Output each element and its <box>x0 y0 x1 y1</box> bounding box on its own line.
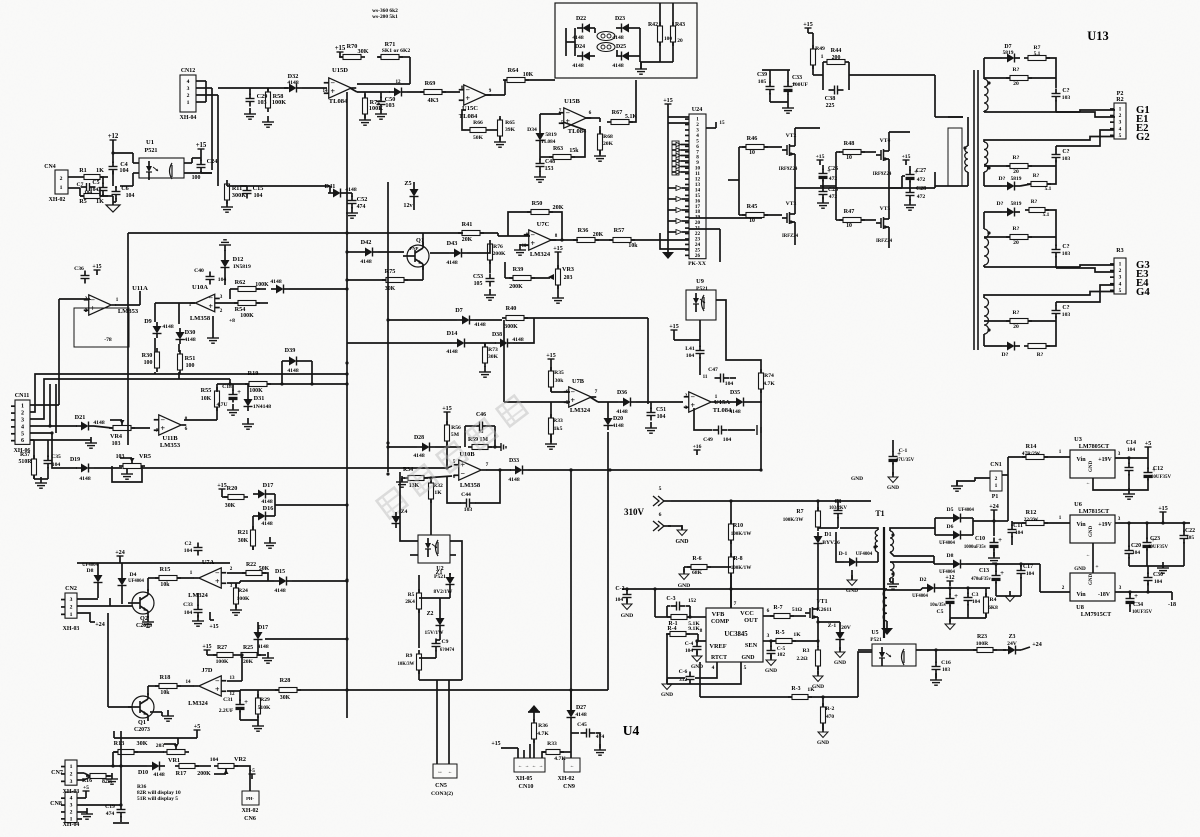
potentiometer VR3 <box>548 265 574 289</box>
diode D9 <box>144 318 174 338</box>
svg-text:Vin: Vin <box>1076 592 1086 598</box>
svg-text:CN5: CN5 <box>435 783 447 789</box>
svg-text:R30: R30 <box>142 352 153 359</box>
svg-text:+24: +24 <box>115 550 125 556</box>
resistor R5 <box>79 188 108 205</box>
diode D21 <box>75 414 105 431</box>
svg-text:P1: P1 <box>992 494 999 500</box>
secondary winding T1a <box>890 528 935 556</box>
svg-text:1k5: 1k5 <box>554 426 563 432</box>
note text <box>137 784 181 802</box>
wire <box>142 466 449 469</box>
wire <box>504 320 570 402</box>
svg-text:474: 474 <box>357 204 366 210</box>
svg-text:6: 6 <box>453 474 456 480</box>
capacitor C18 <box>216 384 241 408</box>
svg-text:1: 1 <box>1059 515 1062 521</box>
svg-text:D9: D9 <box>144 318 152 325</box>
resistor R7c <box>1025 199 1056 240</box>
svg-text:104: 104 <box>685 648 693 654</box>
resistor R45 <box>742 203 782 224</box>
svg-text:LM358: LM358 <box>460 482 481 489</box>
svg-text:+19V: +19V <box>1098 522 1112 528</box>
svg-text:200K: 200K <box>509 284 523 290</box>
svg-text:D17: D17 <box>258 625 268 631</box>
ground <box>691 651 703 670</box>
svg-text:4148: 4148 <box>729 409 740 415</box>
svg-text:7: 7 <box>734 601 737 607</box>
power +15 <box>803 22 813 33</box>
svg-text:GND: GND <box>851 476 863 482</box>
svg-text:472: 472 <box>917 194 926 200</box>
wire <box>498 233 530 236</box>
wire <box>984 285 1114 306</box>
svg-text:+12: +12 <box>108 133 119 140</box>
op-amp U15D <box>322 67 356 105</box>
svg-text:UC3845: UC3845 <box>724 631 748 638</box>
svg-text:+24: +24 <box>1032 642 1042 648</box>
svg-text:R12: R12 <box>1026 509 1037 516</box>
svg-text:C19: C19 <box>105 804 115 810</box>
capacitor C48 <box>536 145 556 172</box>
svg-text:C30: C30 <box>1153 572 1163 578</box>
wire <box>550 239 578 241</box>
op-amp U7C <box>522 221 558 258</box>
capacitor C41 <box>674 320 705 359</box>
resistor R75 <box>347 266 423 292</box>
wire <box>377 396 528 519</box>
resistor R1 <box>79 167 104 180</box>
svg-text:R54: R54 <box>235 306 246 313</box>
resistor R27 <box>207 645 237 665</box>
svg-text:C53: C53 <box>473 274 483 280</box>
wire <box>112 466 142 482</box>
capacitor C4 <box>109 145 129 175</box>
svg-text:LM324: LM324 <box>570 407 591 414</box>
svg-text:VREF: VREF <box>709 643 726 650</box>
svg-text:470: 470 <box>826 714 834 720</box>
ground <box>988 552 1000 563</box>
svg-text:R?: R? <box>1031 199 1038 205</box>
transistor Q1b <box>128 693 154 733</box>
svg-text:R49: R49 <box>815 46 825 52</box>
svg-text:LM358: LM358 <box>190 315 211 322</box>
svg-text:IN5819: IN5819 <box>233 264 251 270</box>
wire <box>1086 543 1099 573</box>
resistor R7a <box>1024 45 1056 88</box>
svg-text:+: + <box>465 94 470 103</box>
svg-text:5.1: 5.1 <box>1043 212 1050 218</box>
svg-text:10: 10 <box>749 218 755 224</box>
ground <box>834 647 846 666</box>
svg-text:20K: 20K <box>552 204 563 211</box>
svg-text:203: 203 <box>156 743 165 749</box>
ground <box>1123 488 1135 499</box>
svg-text:XH-02: XH-02 <box>49 197 66 203</box>
svg-text:D15: D15 <box>275 569 285 575</box>
svg-text:←: ← <box>1086 552 1091 557</box>
diode D30 <box>176 328 196 344</box>
svg-text:GND: GND <box>678 583 691 589</box>
svg-text:8: 8 <box>700 628 703 634</box>
svg-text:+16: +16 <box>693 444 702 450</box>
svg-text:+: + <box>1134 593 1138 600</box>
diode D33 <box>486 458 761 483</box>
svg-text:R68: R68 <box>603 134 613 140</box>
svg-text:4: 4 <box>187 79 190 85</box>
svg-text:47R/2W: 47R/2W <box>1022 451 1041 457</box>
svg-text:1: 1 <box>995 483 998 489</box>
svg-text:+: + <box>998 537 1002 544</box>
wire bus H233 <box>128 232 463 234</box>
svg-text:R67: R67 <box>612 109 623 116</box>
svg-text:R-2: R-2 <box>826 706 835 712</box>
capacitor C30 <box>1144 566 1164 592</box>
svg-text:R-7: R-7 <box>773 605 782 611</box>
svg-text:20V: 20V <box>841 625 852 631</box>
op-amp U15B <box>559 98 592 135</box>
label ws <box>372 8 398 20</box>
wire <box>302 87 327 89</box>
svg-text:1: 1 <box>821 54 824 60</box>
ground <box>142 616 154 627</box>
ground <box>552 285 564 303</box>
svg-text:R46: R46 <box>747 135 758 142</box>
svg-text:10k: 10k <box>160 582 170 588</box>
svg-text:1N4148: 1N4148 <box>253 404 271 410</box>
svg-text:2.2UF: 2.2UF <box>219 708 234 714</box>
svg-text:510R: 510R <box>18 459 32 465</box>
svg-text:R35: R35 <box>554 370 564 376</box>
svg-text:3: 3 <box>230 583 233 589</box>
svg-text:10: 10 <box>846 155 852 161</box>
svg-text:U11B: U11B <box>162 435 178 442</box>
svg-text:R50: R50 <box>532 200 543 207</box>
svg-text:15V/1W: 15V/1W <box>425 630 445 636</box>
resistor R46 <box>742 135 782 156</box>
svg-text:K2611: K2611 <box>816 607 832 613</box>
svg-text:68K: 68K <box>692 570 703 576</box>
svg-text:100: 100 <box>144 360 153 366</box>
svg-text:GND: GND <box>817 740 829 746</box>
resistor R36b <box>532 719 550 758</box>
resistor R21 <box>238 526 256 550</box>
svg-text:3: 3 <box>1118 451 1121 457</box>
mosfet VT4 <box>873 138 892 177</box>
resistor R57 <box>560 227 689 249</box>
svg-text:2: 2 <box>187 93 190 99</box>
zener Z5 <box>403 180 418 210</box>
svg-text:1K: 1K <box>96 167 104 174</box>
svg-text:+5: +5 <box>1145 441 1152 447</box>
svg-text:5.1: 5.1 <box>1034 51 1041 57</box>
svg-text:R19: R19 <box>248 370 259 377</box>
resistor R66 <box>462 110 497 141</box>
mosfet VT3 <box>782 201 799 239</box>
svg-text:1: 1 <box>21 404 24 410</box>
svg-text:U8: U8 <box>1076 604 1084 611</box>
wire <box>265 637 349 640</box>
svg-text:10K/3W: 10K/3W <box>398 662 415 667</box>
resistor R22 <box>242 562 270 581</box>
svg-text:4148: 4148 <box>274 588 285 594</box>
wire <box>984 100 1115 117</box>
ground <box>85 437 97 448</box>
resistor R7big <box>783 499 821 531</box>
svg-text:C27: C27 <box>916 168 926 174</box>
svg-text:8: 8 <box>555 233 558 239</box>
svg-text:104: 104 <box>52 462 61 468</box>
resistor R44 <box>823 47 849 65</box>
svg-text:R33: R33 <box>553 418 563 424</box>
resistor R5b <box>405 575 421 648</box>
svg-text:GND: GND <box>846 588 858 594</box>
capacitor C6 <box>112 185 135 202</box>
svg-text:R75: R75 <box>385 268 396 275</box>
wire <box>184 158 212 173</box>
svg-text:4148: 4148 <box>287 368 298 374</box>
ic U6 LM7815CT <box>1070 501 1115 543</box>
ground <box>262 116 274 127</box>
wire <box>253 505 347 530</box>
svg-text:10UF35V: 10UF35V <box>1151 475 1172 480</box>
svg-text:104: 104 <box>1127 447 1135 453</box>
svg-text:+: + <box>570 396 575 405</box>
label G3E3E4G4 <box>1136 259 1150 298</box>
svg-text:2K4: 2K4 <box>405 599 415 605</box>
capacitor C-4 <box>685 639 702 654</box>
svg-text:R9: R9 <box>406 653 413 659</box>
resistor R25 <box>237 645 266 665</box>
svg-text:1: 1 <box>187 100 190 106</box>
wire <box>111 731 197 768</box>
svg-text:104: 104 <box>615 597 623 603</box>
svg-text:7: 7 <box>559 108 562 114</box>
svg-text:←: ← <box>570 763 575 768</box>
svg-text:15k: 15k <box>569 148 579 154</box>
resistor R13 <box>113 740 164 755</box>
diode D19 <box>70 457 94 482</box>
svg-text:U7B: U7B <box>572 378 585 385</box>
svg-text:103: 103 <box>1062 312 1071 318</box>
svg-text:↔: ↔ <box>437 769 443 775</box>
svg-text:C33: C33 <box>183 602 193 608</box>
capacitor C7b <box>1052 149 1071 163</box>
svg-text:C-4: C-4 <box>685 641 694 647</box>
ground <box>227 404 239 415</box>
resistor R30 <box>142 348 160 372</box>
svg-text:D7: D7 <box>455 307 463 314</box>
svg-text:VR3: VR3 <box>562 266 574 273</box>
ground <box>951 478 990 491</box>
svg-text:6: 6 <box>659 512 662 518</box>
svg-text:6K8: 6K8 <box>988 605 998 611</box>
ground <box>594 150 606 161</box>
capacitor C27 <box>906 168 927 183</box>
svg-text:1K: 1K <box>96 198 104 205</box>
resistor R7d <box>1024 321 1056 358</box>
wire <box>731 576 737 608</box>
svg-text:+15: +15 <box>196 142 207 149</box>
svg-text:3: 3 <box>21 417 24 423</box>
svg-text:100UF: 100UF <box>792 82 809 88</box>
svg-text:4148: 4148 <box>446 260 457 266</box>
capacitor C51 <box>647 402 667 421</box>
resistor R23 <box>973 634 1006 653</box>
svg-text:+: + <box>237 389 241 396</box>
svg-text:C24: C24 <box>207 158 218 165</box>
ground <box>661 678 673 698</box>
power arrow <box>528 705 540 721</box>
wire <box>400 472 462 575</box>
svg-text:Q1: Q1 <box>138 719 146 726</box>
diode D43 <box>430 240 490 266</box>
svg-text:20: 20 <box>1013 169 1019 175</box>
svg-text:+5: +5 <box>249 768 255 774</box>
svg-text:C40: C40 <box>194 268 204 274</box>
wire bus V2 <box>386 182 389 476</box>
capacitor C17 <box>1017 562 1035 596</box>
svg-text:D22: D22 <box>576 16 586 22</box>
svg-text:D19: D19 <box>70 457 80 463</box>
svg-text:OUT: OUT <box>744 617 758 624</box>
ground <box>817 727 829 746</box>
svg-text:R76: R76 <box>493 244 503 250</box>
svg-text:D30: D30 <box>185 329 196 336</box>
wire <box>689 218 762 262</box>
svg-text:R7: R7 <box>796 509 803 515</box>
svg-text:103: 103 <box>112 441 121 447</box>
svg-text:100K: 100K <box>255 282 269 288</box>
svg-text:R70: R70 <box>347 43 358 50</box>
diode D34 <box>527 127 557 145</box>
svg-text:14: 14 <box>322 88 328 94</box>
svg-text:R20: R20 <box>227 485 238 492</box>
ground <box>207 332 219 343</box>
svg-text:104: 104 <box>723 437 732 443</box>
svg-text:D?: D? <box>997 201 1004 207</box>
svg-text:R39: R39 <box>513 266 524 273</box>
svg-text:CN8: CN8 <box>50 801 62 807</box>
svg-text:C20: C20 <box>1131 543 1141 549</box>
svg-text:GND: GND <box>675 539 688 545</box>
power +24 <box>115 550 125 561</box>
capacitor C5 <box>930 588 958 618</box>
ground <box>346 207 358 218</box>
svg-text:←: ← <box>532 763 537 768</box>
svg-text:C28: C28 <box>916 186 926 192</box>
connector CN11 <box>11 393 30 454</box>
svg-text:Z4: Z4 <box>401 509 408 515</box>
diode D7c <box>984 201 1022 229</box>
svg-text:10: 10 <box>749 150 755 156</box>
svg-text:+: + <box>954 593 958 600</box>
diode D-1 <box>836 532 873 567</box>
diode D38 <box>492 318 534 348</box>
resistor R20c <box>984 226 1056 246</box>
svg-text:6?0474: 6?0474 <box>440 648 455 653</box>
wire <box>240 185 330 187</box>
svg-text:4148: 4148 <box>616 409 627 415</box>
svg-text:5819: 5819 <box>1011 201 1022 207</box>
svg-text:R5: R5 <box>408 592 415 598</box>
svg-text:C5: C5 <box>937 609 944 615</box>
svg-text:U7A: U7A <box>202 559 215 566</box>
svg-text:UF4004: UF4004 <box>82 563 98 568</box>
resistor R40 <box>502 305 648 330</box>
secondary winding T1c <box>883 590 921 626</box>
opto-coupler U2 <box>418 535 450 580</box>
wire <box>248 87 288 89</box>
wire <box>667 662 747 684</box>
svg-text:3: 3 <box>767 633 770 639</box>
diode D27 <box>567 690 587 752</box>
svg-text:LM7915CT: LM7915CT <box>1081 612 1111 618</box>
pin arrows block <box>672 141 689 175</box>
svg-text:C34: C34 <box>1133 602 1143 608</box>
svg-text:102: 102 <box>777 652 785 658</box>
wire <box>407 91 424 93</box>
ground <box>887 472 899 491</box>
svg-text:+: + <box>90 304 95 313</box>
diode D7a <box>984 44 1020 79</box>
wire <box>984 256 1114 272</box>
svg-text:100K/1W: 100K/1W <box>731 531 752 537</box>
svg-text:1K: 1K <box>434 490 442 496</box>
wire <box>820 132 910 248</box>
ground <box>484 289 496 300</box>
capacitor C-5 <box>767 639 786 658</box>
svg-text:104: 104 <box>657 414 666 420</box>
potentiometer VR1 <box>156 738 189 764</box>
ground <box>230 604 242 615</box>
ground <box>81 808 93 819</box>
resistor R47 <box>839 208 876 229</box>
resistor R3 <box>796 620 820 674</box>
svg-text:5: 5 <box>1119 133 1122 139</box>
svg-text:VR4: VR4 <box>110 433 122 440</box>
ground <box>494 136 506 147</box>
svg-text:1: 1 <box>70 764 73 770</box>
svg-text:R34: R34 <box>403 467 413 473</box>
svg-text:470uF35v: 470uF35v <box>971 577 991 582</box>
secondary winding W1 <box>984 79 991 111</box>
wire <box>759 402 762 472</box>
diode D17b <box>254 622 269 655</box>
ic U4 UC3845 <box>706 608 763 662</box>
capacitor C24 <box>192 154 218 181</box>
svg-text:VFB: VFB <box>712 611 725 618</box>
resistor R11 <box>225 180 247 204</box>
resistor R29 <box>256 690 272 718</box>
secondary winding W2 <box>984 142 991 172</box>
wire <box>994 457 1008 536</box>
resistor R68 <box>598 126 614 154</box>
resistor R58 <box>266 88 287 112</box>
svg-text:XH-04: XH-04 <box>63 822 80 828</box>
svg-text:Z5: Z5 <box>404 180 411 187</box>
zener Z1 <box>434 570 455 598</box>
transformer T1 <box>875 509 884 638</box>
svg-text:6: 6 <box>185 426 188 432</box>
svg-text:153: 153 <box>545 166 554 172</box>
svg-text:100K/3W: 100K/3W <box>783 517 804 523</box>
wire <box>795 172 935 188</box>
diode D14 <box>347 330 496 355</box>
wire <box>984 130 1114 150</box>
svg-text:2: 2 <box>60 176 63 182</box>
ground <box>240 711 264 731</box>
